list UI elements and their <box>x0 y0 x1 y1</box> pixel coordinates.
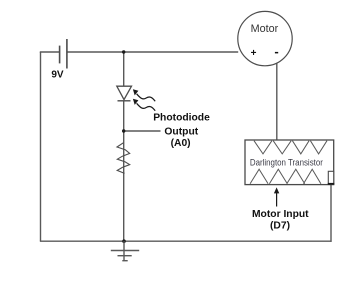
wire: leader line from node A0 toward Output label <box>124 130 161 132</box>
darlington top V pattern <box>254 141 327 154</box>
wire: battery to motor top rail <box>67 51 238 53</box>
wire: top-left segment to battery <box>40 51 60 53</box>
battery BT1 negative plate (short) <box>59 46 61 64</box>
svg-text:+: + <box>251 48 257 59</box>
wire: bottom rail horizontal <box>40 240 332 242</box>
arrow: motor input pointer <box>274 187 279 206</box>
photodiode D1 triangle <box>117 86 132 99</box>
motor M1 body <box>238 11 292 65</box>
svg-text:Darlington Transistor: Darlington Transistor <box>250 158 323 168</box>
darlington bottom pyramid pattern <box>250 169 321 184</box>
svg-text:Output: Output <box>164 127 198 138</box>
wire: right vertical from Darlington tab down to bottom rail <box>330 184 332 242</box>
node: junction dot photodiode output (A0) <box>122 129 125 132</box>
photodiode D1 cathode bar <box>118 100 131 102</box>
battery BT1 positive plate (tall) <box>66 39 68 69</box>
svg-text:Motor Input: Motor Input <box>252 209 309 220</box>
photodiode light arrow 1 <box>133 89 155 101</box>
wire: photodiode cathode down through resistor to bottom rail <box>123 101 125 241</box>
resistor R1 zigzag <box>117 143 130 174</box>
ground symbol <box>111 241 139 261</box>
photodiode light arrow 2 <box>133 99 155 111</box>
wire: left vertical from battery loop corner down to bottom rail <box>40 52 42 241</box>
wire: motor minus terminal down to Darlington box <box>276 64 278 141</box>
motor minus terminal <box>275 52 278 54</box>
svg-text:Motor: Motor <box>251 23 279 35</box>
darlington transistor U1 box <box>245 140 334 185</box>
node: junction dot bottom rail / ground <box>122 239 126 243</box>
svg-text:Photodiode: Photodiode <box>153 113 210 124</box>
svg-text:(D7): (D7) <box>270 221 290 232</box>
svg-text:(A0): (A0) <box>171 138 191 149</box>
darlington pin tab <box>328 171 333 183</box>
wire: branch from top rail down to photodiode <box>123 52 125 86</box>
svg-text:9V: 9V <box>51 69 64 80</box>
node: junction dot top rail / photodiode branch <box>122 50 125 53</box>
